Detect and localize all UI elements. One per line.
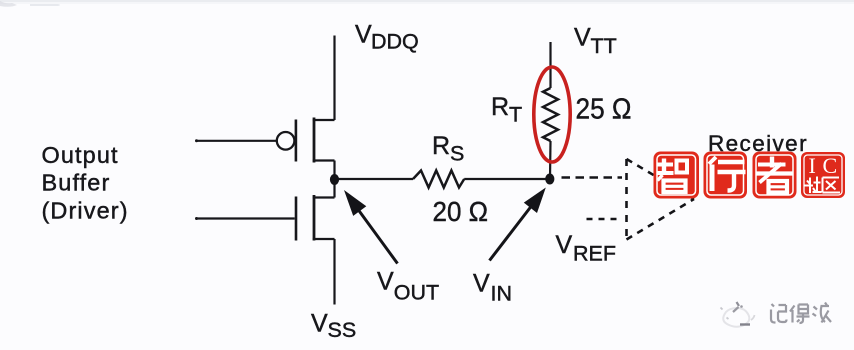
svg-text:V: V [556, 231, 573, 259]
watermark gray text ji de cheng [771, 303, 831, 324]
power label VDDQ [355, 21, 419, 54]
svg-text:V: V [355, 21, 372, 49]
resistor RT [543, 88, 558, 141]
wire dashed VREF to receiver [587, 218, 623, 221]
receiver U1 dashed bottom edge [627, 199, 695, 240]
svg-text:REF: REF [573, 242, 616, 266]
node VOUT junction [330, 174, 339, 185]
svg-text:T: T [509, 103, 522, 127]
receiver U1 dashed comparator input edge [625, 159, 628, 240]
svg-text:OUT: OUT [394, 281, 439, 305]
svg-text:IN: IN [491, 282, 513, 306]
svg-text:V: V [574, 24, 591, 52]
watermark red stamp 1 [654, 152, 700, 199]
wire Q1 drain to output node [333, 161, 335, 180]
power label VTT [574, 24, 617, 58]
wire RT to VIN node [549, 141, 552, 179]
wire output node to RS [335, 178, 414, 180]
annotation arrow to VIN node [490, 188, 546, 261]
transistor Q2 NMOS pull-down [195, 195, 335, 241]
node VIN junction [545, 174, 554, 185]
svg-text:20 Ω: 20 Ω [433, 196, 489, 227]
svg-text:V: V [377, 268, 394, 296]
svg-text:DDQ: DDQ [371, 30, 419, 54]
svg-text:C: C [823, 153, 838, 178]
annotation red ellipse around RT [534, 67, 570, 162]
resistor label RT [491, 93, 522, 126]
svg-text:V: V [311, 310, 328, 338]
svg-text:SS: SS [328, 318, 357, 342]
svg-text:V: V [473, 269, 490, 297]
resistor label RS [432, 132, 464, 166]
svg-text:R: R [432, 132, 450, 160]
transistor Q1 PMOS pull-up [195, 118, 335, 163]
wire VDDQ rail [333, 36, 335, 121]
svg-text:Output: Output [42, 142, 119, 168]
wire dashed VIN node to receiver [562, 176, 623, 179]
net label VIN [473, 269, 512, 305]
receiver U1 dashed top edge [627, 159, 695, 199]
wire output node to Q2 drain [333, 179, 335, 198]
watermark red stamp 2 [704, 152, 748, 199]
label Output Buffer (Driver) [42, 142, 129, 224]
watermark red stamp 4 IC she qu [801, 152, 845, 198]
watermark gray icon [721, 302, 755, 327]
svg-text:I: I [809, 153, 816, 178]
ground label VSS [311, 310, 356, 342]
wire VTT rail [549, 42, 551, 88]
value label 25 Ohm [576, 93, 632, 125]
svg-text:S: S [450, 142, 464, 166]
watermark red stamp 3 [753, 152, 797, 199]
label Receiver [708, 131, 808, 156]
value label 20 Ohm [433, 196, 489, 227]
wire Q2 source to VSS [333, 239, 335, 305]
svg-text:TT: TT [591, 34, 617, 58]
svg-text:Buffer: Buffer [42, 170, 111, 196]
svg-text:R: R [491, 93, 509, 121]
wire RS to VIN node [464, 178, 549, 180]
net label VREF [556, 231, 617, 266]
annotation arrow to VOUT node [344, 190, 398, 264]
svg-text:25 Ω: 25 Ω [576, 93, 632, 125]
svg-text:(Driver): (Driver) [42, 198, 129, 224]
resistor RS [413, 171, 464, 188]
net label VOUT [377, 268, 439, 305]
